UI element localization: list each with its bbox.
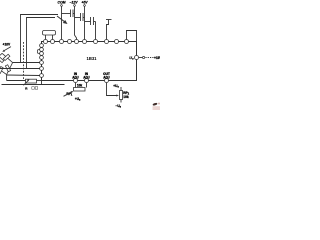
svg-text:+Us: +Us	[75, 97, 81, 102]
svg-text:ADJ: ADJ	[83, 76, 90, 80]
svg-text:+15V: +15V	[154, 56, 160, 60]
svg-text:−Us: −Us	[116, 104, 122, 109]
svg-text:−12V: −12V	[69, 1, 78, 5]
svg-text:10k: 10k	[77, 83, 83, 87]
svg-text:+5V: +5V	[81, 1, 88, 5]
svg-text:COM: COM	[58, 1, 66, 5]
svg-text:+Us: +Us	[113, 84, 119, 89]
svg-text:+10V: +10V	[3, 42, 11, 46]
svg-text:1B31: 1B31	[86, 56, 97, 61]
svg-text:ADJ: ADJ	[72, 76, 79, 80]
svg-text:R: R	[25, 86, 28, 90]
svg-text:10k: 10k	[123, 95, 129, 99]
svg-text:Uo: Uo	[129, 56, 134, 61]
svg-text:ADJ: ADJ	[103, 76, 110, 80]
